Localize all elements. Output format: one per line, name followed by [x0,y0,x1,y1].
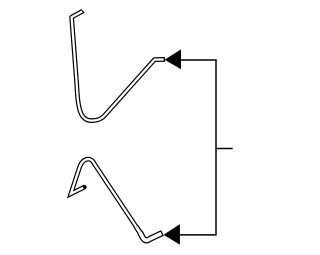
wire elbow and end segment core white [140,233,161,241]
wire core white [72,11,164,120]
vertical bracket line [215,59,217,235]
callout bracket lines [180,59,233,235]
wire width transition white [136,227,140,234]
middle tick [216,148,233,150]
wire width transition black [136,227,140,234]
bottom leader line [180,234,217,236]
wire core white [71,159,137,228]
wire outline black [71,159,137,228]
lower retaining clip (outlined rod with open hook end) [71,159,163,240]
wire outline black [72,11,165,121]
upper callout arrowhead (filled) [165,49,181,69]
lower callout arrowhead (filled) [164,224,180,245]
upper clip tab end cap [81,10,85,14]
wire elbow and end segment (wider projection) black [140,233,163,241]
upper retaining clip (outlined rod) [72,11,165,121]
top leader line [180,59,216,61]
